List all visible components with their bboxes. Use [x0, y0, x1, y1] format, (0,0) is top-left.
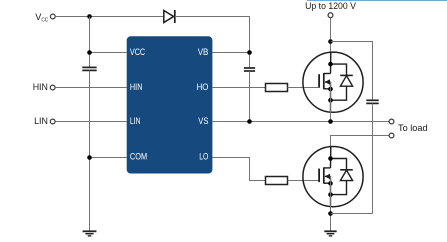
capacitor C1: [82, 67, 96, 70]
wire left ground rail: [89, 71, 91, 231]
transistor Q2 low-side MOSFET: [303, 147, 363, 207]
wire bus to C3: [331, 42, 373, 100]
svg-text:COM: COM: [130, 150, 147, 161]
node bus junction: [328, 39, 333, 44]
terminal HIN: [50, 85, 55, 90]
wire COM pin: [90, 157, 127, 159]
wire Q1 source to VS: [330, 82, 332, 122]
svg-text:HO: HO: [197, 81, 209, 92]
svg-text:LIN: LIN: [130, 115, 141, 126]
wire VB pin: [212, 52, 249, 54]
svg-text:VS: VS: [198, 115, 208, 126]
ground right: [324, 231, 336, 236]
wire R2 to Q2 gate: [288, 180, 319, 182]
svg-text:HIN: HIN: [130, 81, 143, 92]
node VS phase junction: [328, 119, 333, 124]
transistor Q1 high-side MOSFET: [303, 52, 363, 112]
wire left rail upper: [89, 17, 91, 68]
wire load lower to Q2 drain: [331, 136, 390, 168]
ground left: [83, 231, 97, 236]
svg-text:CC: CC: [41, 18, 48, 24]
svg-text:Up to 1200 V: Up to 1200 V: [305, 0, 357, 11]
node VS bootstrap junction: [247, 119, 252, 124]
node Vcc rail tap: [87, 14, 92, 19]
capacitor C3 dc link: [366, 100, 378, 103]
terminal load lower: [389, 133, 394, 138]
diode D1: [164, 10, 175, 23]
wire R1 to Q1 gate: [288, 87, 319, 89]
IC U1 gate driver body: [127, 36, 213, 173]
svg-text:VB: VB: [198, 46, 209, 57]
node VB junction: [247, 50, 252, 55]
terminal LIN: [50, 119, 55, 124]
svg-text:VCC: VCC: [130, 46, 145, 57]
top border line: [307, 0, 447, 2]
capacitor C2 bootstrap: [244, 68, 255, 71]
wire HO pin: [212, 87, 265, 89]
svg-text:LIN: LIN: [34, 116, 48, 126]
node COM junction: [87, 155, 92, 160]
wire Vcc to diode anode: [55, 16, 164, 18]
svg-text:LO: LO: [199, 150, 208, 161]
terminal bus: [328, 13, 333, 18]
resistor R1 gate high-side: [266, 84, 288, 92]
wire VS pin to load terminal: [212, 121, 389, 123]
wire source rail to C3: [331, 213, 373, 215]
node source rail junction: [328, 211, 333, 216]
wire diode cathode to bootstrap column: [175, 17, 250, 68]
terminal Vcc: [50, 14, 55, 19]
node VCC pin junction: [87, 50, 92, 55]
wire bootstrap column lower: [249, 71, 251, 121]
resistor R2 gate low-side: [266, 177, 288, 185]
wire LIN pin: [55, 121, 127, 123]
svg-text:To load: To load: [398, 123, 428, 133]
svg-text:HIN: HIN: [33, 82, 48, 92]
wire LO pin to R2: [212, 158, 265, 181]
net label Vcc: [35, 12, 48, 24]
wire C3 to source rail: [372, 104, 374, 214]
wire HIN pin: [55, 87, 127, 89]
wire Q2 source to ground: [330, 176, 332, 230]
terminal load upper: [389, 119, 394, 124]
wire VCC pin: [90, 52, 127, 54]
wire bus to Q1 drain: [330, 18, 332, 74]
